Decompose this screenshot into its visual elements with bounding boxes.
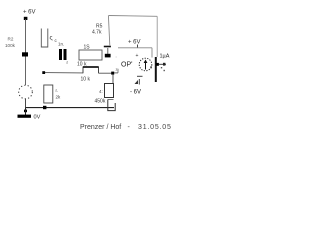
- svg-text:1n.: 1n.: [58, 42, 64, 47]
- svg-text:+: +: [136, 53, 139, 59]
- op-amp right edge thick: [155, 57, 157, 82]
- svg-text:0V: 0V: [34, 114, 41, 120]
- wire left vertical upper: [25, 19, 27, 53]
- svg-text:- 6V: - 6V: [130, 90, 141, 96]
- ground junction dot: [24, 110, 27, 113]
- wire left vertical lower: [25, 57, 27, 86]
- wire middle horizontal left: [44, 72, 84, 74]
- svg-text:Prenzer / Hof: Prenzer / Hof: [80, 124, 121, 131]
- junction dot on rail: [43, 106, 46, 109]
- svg-text:10 k: 10 k: [81, 77, 91, 83]
- output wire: [159, 63, 166, 65]
- svg-text:z: z: [116, 66, 118, 71]
- resistor R2 body (small filled blob on wire): [22, 52, 28, 56]
- junction dot middle: [111, 72, 114, 75]
- svg-text:ς: ς: [50, 35, 53, 42]
- resistor R3 body (vertical box): [44, 85, 53, 103]
- op-amp U1 corner: [151, 48, 153, 58]
- resistor R7 lower box: [108, 100, 115, 111]
- op-amp minus lead mark: [137, 75, 143, 77]
- wire middle horizontal right: [99, 72, 113, 74]
- svg-text:OPʹ: OPʹ: [121, 60, 132, 68]
- feedback wire right down: [156, 16, 158, 57]
- svg-text:4:: 4:: [99, 89, 103, 94]
- resistor R6 body (box on wire): [83, 67, 99, 73]
- node +6V left junction dot: [24, 17, 28, 20]
- capacitor C2 lower lead: [107, 48, 109, 54]
- resistor R7 lead: [112, 74, 114, 83]
- resistor R7 body upper box: [105, 84, 114, 98]
- meter M1 (circle with arrow): [139, 58, 152, 71]
- output junction dot: [156, 63, 159, 66]
- capacitor C2 top plate: [104, 46, 111, 48]
- wire stub to op-amp: [114, 72, 118, 74]
- feedback wire top: [109, 15, 158, 18]
- svg-text:2k: 2k: [56, 95, 62, 100]
- wire below sensor: [25, 99, 27, 108]
- svg-text:+ 6V: + 6V: [128, 40, 141, 46]
- ground bar: [18, 115, 32, 118]
- svg-text:4.7k: 4.7k: [92, 30, 102, 36]
- svg-text::: :: [116, 54, 117, 59]
- ground stub: [25, 108, 27, 115]
- supply tick: [137, 45, 139, 48]
- resistor R1 body (open-top box): [41, 29, 48, 48]
- wire bottom rail: [26, 107, 115, 109]
- feedback wire up left: [108, 16, 109, 46]
- svg-text:+ 6V: + 6V: [23, 10, 36, 16]
- resistor R4 body (box): [79, 50, 102, 60]
- svg-text:R2: R2: [8, 37, 14, 42]
- svg-text:r.: r.: [56, 88, 59, 93]
- junction dot left: [42, 71, 45, 74]
- pin tick: [117, 69, 119, 73]
- svg-text:31.05.05: 31.05.05: [138, 124, 172, 131]
- svg-text:100k: 100k: [5, 43, 16, 48]
- svg-text:450k: 450k: [95, 99, 106, 105]
- capacitor C1 plates: [59, 49, 62, 60]
- junction blob: [105, 54, 111, 58]
- output terminal mark: [163, 63, 165, 66]
- svg-text:1µA: 1µA: [160, 54, 170, 60]
- photocell (dotted circle sensor): [19, 85, 33, 99]
- op-amp U1 top edge: [118, 47, 152, 49]
